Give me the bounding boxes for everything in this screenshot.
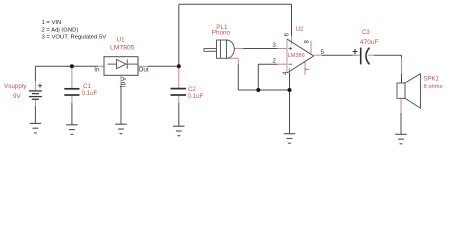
svg-text:C2: C2 bbox=[188, 86, 196, 93]
svg-text:Out: Out bbox=[139, 67, 149, 74]
svg-text:Adj: Adj bbox=[119, 77, 126, 88]
svg-text:U2: U2 bbox=[296, 27, 304, 33]
svg-text:0.1uF: 0.1uF bbox=[188, 93, 204, 100]
svg-text:9V: 9V bbox=[13, 93, 22, 100]
svg-text:8 ohms: 8 ohms bbox=[424, 84, 443, 90]
svg-text:470uF: 470uF bbox=[360, 39, 378, 46]
svg-text:2 = Adj (GND): 2 = Adj (GND) bbox=[42, 27, 79, 33]
svg-text:LM386: LM386 bbox=[288, 53, 305, 59]
svg-text:LM7805: LM7805 bbox=[110, 44, 135, 51]
svg-text:SPK1: SPK1 bbox=[424, 76, 440, 82]
svg-text:Vsupply: Vsupply bbox=[4, 83, 27, 90]
svg-text:U1: U1 bbox=[117, 38, 125, 44]
svg-text:1 = VIN: 1 = VIN bbox=[42, 20, 62, 26]
svg-text:3 = VOUT: Regulated 5V: 3 = VOUT: Regulated 5V bbox=[42, 35, 107, 41]
svg-text:Phono: Phono bbox=[212, 30, 231, 37]
svg-text:In: In bbox=[94, 67, 100, 74]
svg-text:C3: C3 bbox=[362, 30, 370, 36]
svg-text:0.1uF: 0.1uF bbox=[82, 90, 98, 97]
